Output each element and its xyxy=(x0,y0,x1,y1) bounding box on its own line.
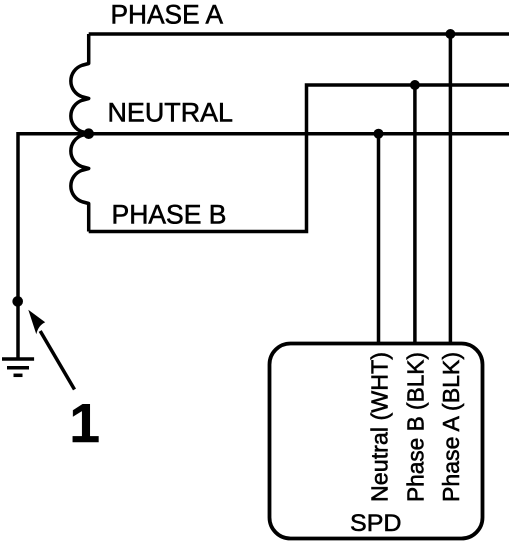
svg-text:PHASE A: PHASE A xyxy=(111,0,224,29)
svg-text:Phase A (BLK): Phase A (BLK) xyxy=(438,352,464,502)
svg-text:PHASE B: PHASE B xyxy=(112,199,227,229)
svg-text:NEUTRAL: NEUTRAL xyxy=(108,97,234,127)
svg-text:1: 1 xyxy=(69,392,100,454)
svg-text:Neutral (WHT): Neutral (WHT) xyxy=(367,352,393,502)
svg-text:SPD: SPD xyxy=(350,510,402,537)
svg-text:Phase B (BLK): Phase B (BLK) xyxy=(403,352,429,502)
